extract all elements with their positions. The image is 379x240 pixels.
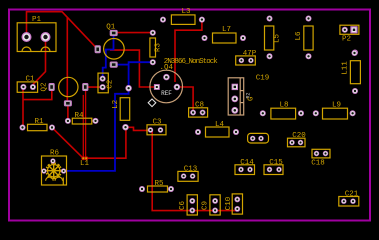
svg-text:L4: L4 xyxy=(215,121,225,129)
pad P1.1 xyxy=(22,32,32,42)
resistor R5 xyxy=(139,180,174,192)
svg-text:47P: 47P xyxy=(243,50,257,58)
svg-text:C20: C20 xyxy=(292,132,306,140)
svg-text:REF: REF xyxy=(161,90,172,97)
connector P2 xyxy=(340,25,359,43)
svg-text:L5: L5 xyxy=(274,34,282,44)
svg-text:L3: L3 xyxy=(181,8,191,16)
svg-text:P1: P1 xyxy=(32,16,42,24)
resistor R1 xyxy=(20,118,56,131)
capacitor C16 xyxy=(248,133,269,143)
svg-text:R5: R5 xyxy=(154,180,164,188)
pad below P2 xyxy=(352,50,358,56)
wire red L3.2 down to Q4 top pad xyxy=(175,20,202,82)
svg-text:C13: C13 xyxy=(184,166,198,174)
capacitor C20 xyxy=(288,132,307,147)
wire red Q2 right pad to C2.2 xyxy=(85,86,102,88)
svg-text:L11: L11 xyxy=(342,61,350,75)
svg-text:L1: L1 xyxy=(80,160,90,168)
inductor L7 xyxy=(202,26,247,43)
wire red Q2 left pad to C1-R1 line xyxy=(23,88,52,100)
wire red Q1 center to Q4 square pad xyxy=(110,50,155,87)
resistor R3 xyxy=(150,30,163,65)
svg-text:C6: C6 xyxy=(179,201,187,211)
svg-text:C18: C18 xyxy=(311,160,325,168)
capacitor 47P xyxy=(236,50,257,65)
svg-text:C1: C1 xyxy=(25,76,35,84)
wire red pair down to L1 xyxy=(85,89,87,159)
resistor R4 xyxy=(65,112,99,124)
wire blue Q1 bottom pad join xyxy=(114,64,129,66)
wire red branch from top rail down through Q2 to R4.1 xyxy=(66,17,69,121)
svg-text:C8: C8 xyxy=(195,102,204,110)
transistor Q1 xyxy=(95,24,124,67)
wire red node L1 to L2 bottom pad xyxy=(84,127,126,158)
capacitor C6 xyxy=(179,195,197,215)
node L1 xyxy=(80,156,90,168)
capacitor C9 xyxy=(202,195,221,215)
inductor L5 xyxy=(265,16,282,60)
trimmer C19 xyxy=(228,75,269,116)
svg-text:L7: L7 xyxy=(222,26,231,34)
transistor Q4 2N3866 xyxy=(148,58,218,106)
svg-text:L6: L6 xyxy=(295,31,303,41)
svg-text:P2: P2 xyxy=(342,36,351,44)
svg-text:L2: L2 xyxy=(112,100,120,109)
capacitor C1 xyxy=(17,76,37,93)
wire red Q1 top pad to R3 top pad xyxy=(114,32,153,34)
svg-text:R1: R1 xyxy=(34,118,44,126)
svg-text:R3: R3 xyxy=(155,43,163,53)
svg-text:C2: C2 xyxy=(106,80,114,89)
inductor L2 xyxy=(112,85,132,130)
svg-text:G: G xyxy=(248,96,256,101)
svg-text:L9: L9 xyxy=(332,102,341,110)
inductor L4 xyxy=(195,121,239,137)
svg-text:Q2: Q2 xyxy=(41,82,49,91)
wire red L2 bottom pad to C3.1 xyxy=(126,127,151,130)
svg-text:C14: C14 xyxy=(240,159,254,167)
wire blue Q1 internal xyxy=(103,33,114,79)
wire blue R3 bottom pad to L2 top via xyxy=(129,62,153,88)
svg-text:C10: C10 xyxy=(225,196,233,210)
svg-text:C19: C19 xyxy=(256,75,270,83)
inductor L6 xyxy=(295,16,313,60)
inductor L9 xyxy=(313,102,356,120)
capacitor C21 xyxy=(339,191,359,207)
capacitor C15 xyxy=(264,159,283,175)
svg-text:C15: C15 xyxy=(269,159,283,167)
wire red P1.2 down to C1.2 xyxy=(33,37,46,87)
svg-text:R6: R6 xyxy=(50,150,60,158)
capacitor C14 xyxy=(235,159,255,175)
capacitor C3 xyxy=(147,119,166,135)
wire blue L2 top via down to R6 right pad xyxy=(66,88,129,171)
capacitor C13 xyxy=(178,166,198,182)
svg-text:C9: C9 xyxy=(202,201,210,210)
svg-text:C3: C3 xyxy=(152,119,162,127)
connector P1 xyxy=(17,16,56,52)
wire red net1: P1.1 top rail to Q1 left pad xyxy=(27,12,98,50)
svg-text:R4: R4 xyxy=(74,112,84,120)
wire red Q4 right pad to C8.1 xyxy=(177,87,193,113)
capacitor C8 xyxy=(189,102,208,118)
svg-text:C21: C21 xyxy=(345,191,359,199)
inductor L11 xyxy=(342,50,361,94)
inductor L3 xyxy=(160,8,205,24)
trimmer R6 xyxy=(41,150,66,186)
inductor L8 xyxy=(260,102,304,120)
capacitor C18 xyxy=(311,149,330,167)
capacitor C2 xyxy=(98,73,114,93)
wire red C3 down along to C10 bottom pad xyxy=(152,131,237,211)
transistor Q2 xyxy=(41,77,88,106)
svg-text:L8: L8 xyxy=(279,102,288,110)
pad P1.2 xyxy=(41,32,51,42)
wire red C1.1 down to R1.1 xyxy=(22,87,24,127)
wire red R1.2 diagonal to node L1 xyxy=(52,128,83,159)
capacitor C10 xyxy=(225,194,243,214)
